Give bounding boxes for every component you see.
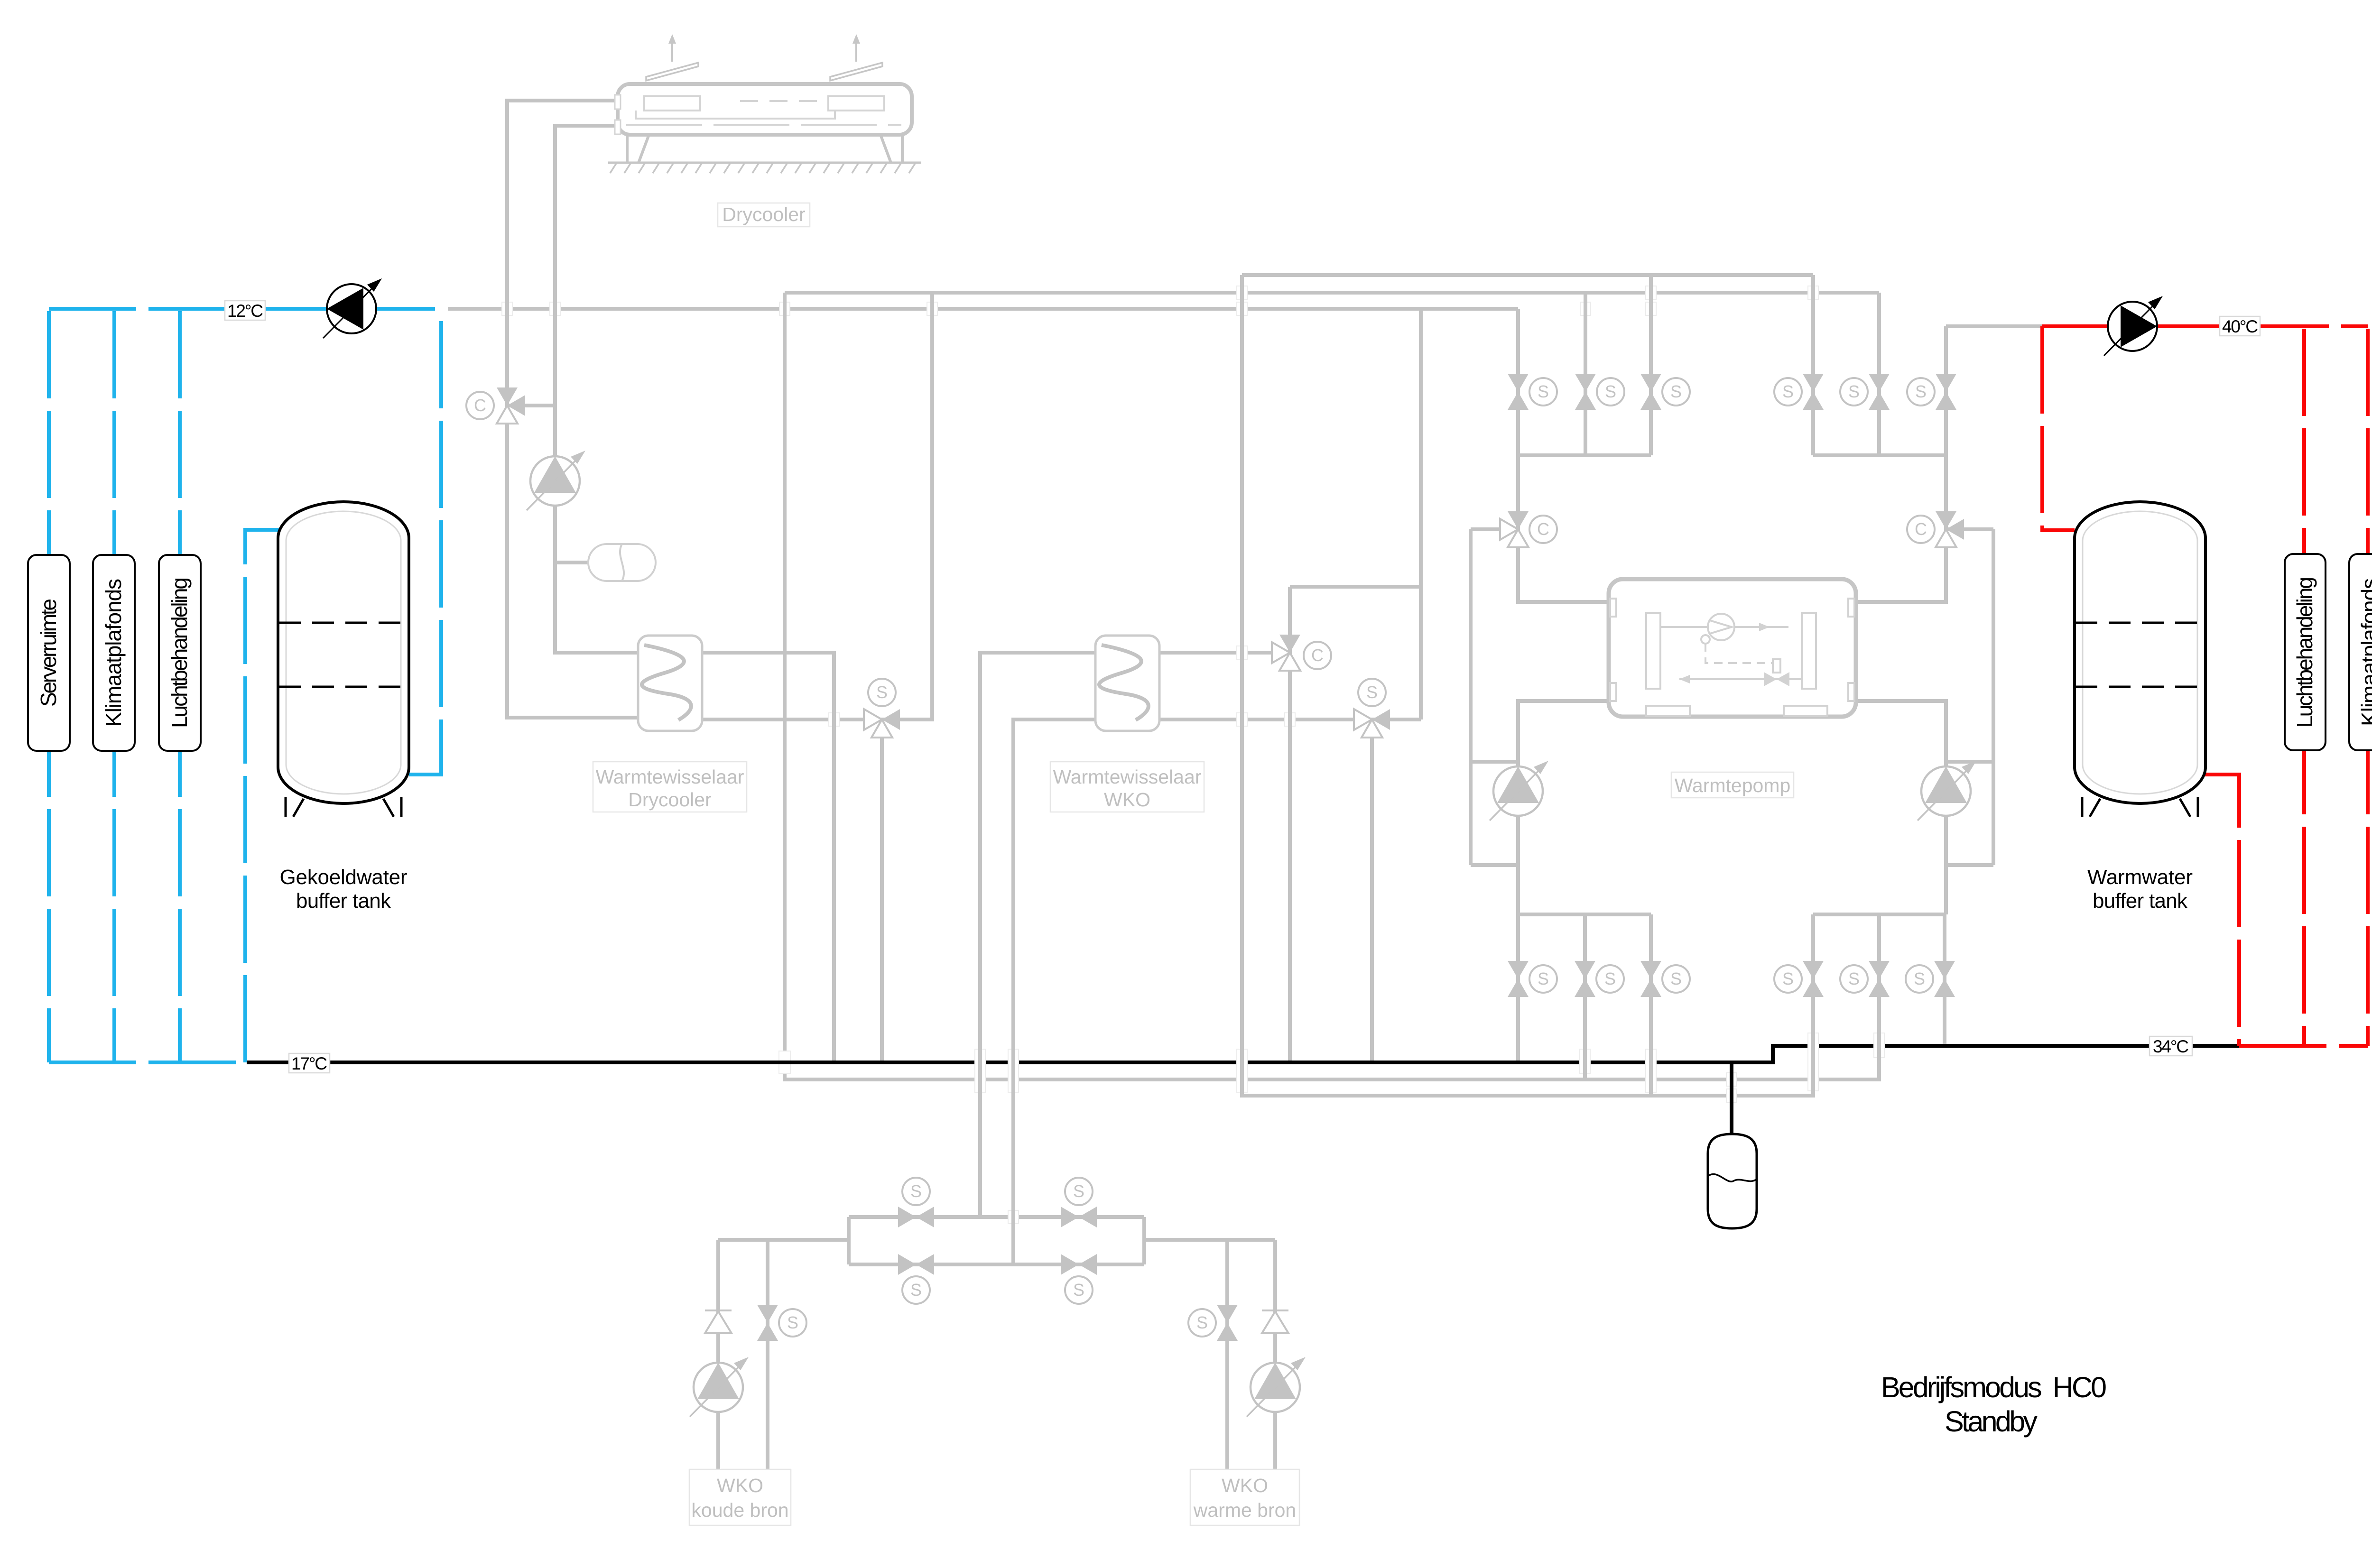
WKO manifold valves with S xyxy=(898,1207,934,1227)
pump heat pump right xyxy=(1918,761,1976,821)
pipe: drycooler supply riser xyxy=(555,126,638,653)
svg-text:Warmtewisselaar: Warmtewisselaar xyxy=(1053,766,1202,788)
svg-text:WKO: WKO xyxy=(1104,789,1150,811)
3-way valve C HX2 xyxy=(1272,635,1300,671)
pipe: HP right outlet with pump column xyxy=(1856,701,1946,914)
pipe: blue 12C supply header xyxy=(49,307,441,311)
pipe: right pump bypass top xyxy=(1946,760,1993,764)
svg-text:Luchtbehandeling: Luchtbehandeling xyxy=(2292,577,2317,728)
label Warmwater buffer tank xyxy=(2087,866,2193,913)
svg-text:Gekoeldwater: Gekoeldwater xyxy=(280,866,408,889)
label Warmtepomp xyxy=(1671,772,1794,798)
pipe: HP evaporator feed column xyxy=(1518,309,1609,602)
drycooler legs and ground xyxy=(627,135,902,163)
label Warmtewisselaar Drycooler xyxy=(593,762,747,812)
pipe: blue bottom collector xyxy=(49,1061,247,1064)
svg-text:buffer tank: buffer tank xyxy=(2093,889,2188,913)
pipe: gray stub to 40C line xyxy=(1946,324,2045,328)
pipe: upper left manifold xyxy=(1518,453,1651,457)
drycooler fan left xyxy=(646,34,698,81)
pipe: WKO manifold right end xyxy=(1142,1217,1146,1264)
expansion vessel black bottom xyxy=(1708,1134,1757,1228)
pipe: HX1 secondary top xyxy=(702,653,834,1062)
load box Luchtbehandeling left xyxy=(159,555,201,751)
pipe: upper loop line A xyxy=(1242,273,1813,277)
pipe: expansion vessel drop black xyxy=(1730,1062,1733,1134)
shutoff valves S upper row xyxy=(1508,374,1529,410)
heat pump box xyxy=(1609,579,1856,717)
svg-text:Warmwater: Warmwater xyxy=(2087,866,2193,889)
pipe: upper valve column 2 xyxy=(1584,293,1587,455)
pipe: WKO warme bron riser 2 xyxy=(1273,1240,1277,1486)
check valve koude bron xyxy=(705,1310,732,1333)
pipe: WKO HX secondary top xyxy=(1159,651,1290,655)
load box Luchtbehandeling right xyxy=(2285,554,2326,750)
shutoff valve S warme bron xyxy=(1217,1305,1238,1341)
pipe: red riser luchtbehandeling xyxy=(2302,329,2306,1046)
node label 17C xyxy=(289,1053,330,1073)
pump blue circuit xyxy=(323,278,382,338)
label Warmtewisselaar WKO xyxy=(1050,762,1204,812)
pipe: HP condenser feed column xyxy=(1856,326,1946,602)
pipe: WKO HX C-valve riser xyxy=(1288,587,1292,1062)
pipe: WKO manifold top rail xyxy=(849,1215,1144,1219)
pipe: HP left outlet with pump column xyxy=(1518,701,1609,1062)
load box Klimaatplafonds left xyxy=(93,555,135,751)
pipe: red riser klimaatplafonds xyxy=(2366,329,2370,1046)
pipe: WKO HX primary cold xyxy=(980,653,1095,1217)
pipe bridge jumps at line crossings xyxy=(502,284,1884,1226)
pipe: upper valve column 5 xyxy=(1877,293,1881,455)
pump red circuit xyxy=(2104,296,2163,356)
load box Klimaatplafonds right xyxy=(2349,554,2372,750)
pipe: WKO koude bron riser 2 xyxy=(766,1240,769,1486)
svg-text:Klimaatplafonds: Klimaatplafonds xyxy=(101,579,126,727)
svg-text:buffer tank: buffer tank xyxy=(296,889,391,913)
pump koude bron xyxy=(690,1357,749,1417)
svg-text:17°C: 17°C xyxy=(291,1054,327,1073)
heat exchanger HX1 drycooler xyxy=(638,636,702,731)
pipe: 17C/34C return main black xyxy=(247,1046,2239,1062)
label WKO koude bron xyxy=(689,1469,791,1525)
pipe: WKO HX S-valve stub xyxy=(1370,719,1374,1062)
pipe: blue riser klimaatplafonds xyxy=(112,311,116,1062)
3-way valve C drycooler bypass xyxy=(497,387,525,424)
pipe: gray 12C main header xyxy=(448,307,1518,311)
shutoff valves S lower row xyxy=(1508,961,1529,997)
svg-text:Serverruimte: Serverruimte xyxy=(36,599,61,707)
pipe: WKO HX secondary bottom xyxy=(1159,718,1421,721)
pipe: WKO left header xyxy=(718,1238,849,1242)
check valve warme bron xyxy=(1262,1310,1288,1333)
load box Serverruimte xyxy=(28,555,70,751)
pipe: blue riser serverruimte xyxy=(47,311,51,1062)
pipe: left pump bypass top xyxy=(1471,760,1518,764)
label Drycooler xyxy=(718,203,810,227)
svg-text:warme bron: warme bron xyxy=(1193,1499,1296,1521)
pump warme bron xyxy=(1247,1357,1306,1417)
svg-text:Bedrijfsmodus HC0: Bedrijfsmodus HC0 xyxy=(1881,1371,2107,1403)
pipe: C-valve right arm link xyxy=(1946,527,1993,531)
svg-text:Luchtbehandeling: Luchtbehandeling xyxy=(167,577,192,728)
pipe: WKO right header xyxy=(1144,1238,1275,1242)
pipe: WKO manifold left end xyxy=(847,1217,851,1264)
pipe: blue riser luchtbehandeling xyxy=(178,311,182,1062)
expansion vessel drycooler loop xyxy=(588,544,656,581)
pipe: blue return to tank xyxy=(245,530,279,1062)
pipe: return collector line 2270 xyxy=(785,293,1879,1079)
pipe: right pump bypass bottom xyxy=(1946,863,1993,867)
pipe: upper valve column 4 xyxy=(1811,275,1815,455)
label Gekoeldwater buffer tank xyxy=(280,866,408,913)
pipe: lower valve column 4099 xyxy=(1943,914,1946,1046)
pipe: WKO koude bron riser 1 xyxy=(716,1240,720,1486)
pipe: expansion vessel stub drycooler xyxy=(555,561,588,564)
pipe: HX1 S-valve stub down xyxy=(880,719,884,1062)
svg-text:34°C: 34°C xyxy=(2153,1037,2189,1056)
pipe: C-valve right downcomer xyxy=(1992,529,1995,865)
heat exchanger HX2 WKO xyxy=(1095,636,1159,731)
pipe: WKO manifold bottom rail xyxy=(849,1263,1144,1266)
pipe: HX1 secondary bottom to riser xyxy=(702,293,932,719)
label Bedrijfsmodus HC0 Standby xyxy=(1881,1371,2107,1438)
drycooler body xyxy=(615,84,912,135)
pipe: red tank return xyxy=(2205,775,2239,1046)
pipe: drycooler return riser xyxy=(507,101,638,718)
pump drycooler loop xyxy=(527,451,585,510)
pipe: WKO warme bron riser 1 xyxy=(1225,1240,1229,1486)
pipe: drycooler bypass branch xyxy=(507,404,555,407)
3-way valve S HX2 xyxy=(1354,709,1390,738)
node label 40C xyxy=(2220,316,2260,336)
pipe: upper loop line B xyxy=(785,291,1879,295)
svg-text:Warmtewisselaar: Warmtewisselaar xyxy=(596,766,744,788)
pipe: red bottom collector xyxy=(2239,1044,2368,1048)
pipe: lower valve column 3480 xyxy=(1649,914,1653,1096)
pipe: lower valve column 3341 xyxy=(1583,914,1587,1079)
3-way valve C heat pump right xyxy=(1936,511,1964,547)
pipe: WKO HX primary warm xyxy=(1013,719,1095,1264)
svg-text:40°C: 40°C xyxy=(2222,317,2258,336)
pipe: upper right manifold xyxy=(1813,453,1946,457)
pipe: red 40C supply header xyxy=(2042,324,2368,328)
pipe bridge on riser 1654 under black main xyxy=(779,1051,790,1074)
svg-text:WKO: WKO xyxy=(1222,1475,1268,1496)
3-way valve C heat pump left xyxy=(1500,511,1529,547)
pipe: WKO riser to header xyxy=(1419,309,1423,719)
pipe: red tank feed elbow xyxy=(2042,326,2075,530)
pipe: blue tank outlet riser xyxy=(409,309,441,775)
pipe: C-valve left downcomer xyxy=(1469,529,1473,865)
shutoff valve S koude bron xyxy=(757,1305,778,1341)
drycooler fan right xyxy=(830,34,882,81)
3-way valve S HX1 xyxy=(864,709,900,738)
pump heat pump left xyxy=(1490,761,1548,821)
pipe: left pump bypass bottom xyxy=(1471,863,1518,867)
pipe: return collector line 2306 xyxy=(1242,275,1813,1096)
pipe: upper valve column 3 xyxy=(1649,275,1653,455)
pipe: C-valve left arm link xyxy=(1471,527,1518,531)
svg-text:12°C: 12°C xyxy=(227,301,263,321)
buffer tank cold Gekoeldwater xyxy=(278,502,409,817)
svg-text:Standby: Standby xyxy=(1945,1405,2038,1438)
pipe: WKO HX C-valve top link xyxy=(1290,585,1421,589)
svg-text:WKO: WKO xyxy=(717,1475,763,1496)
svg-text:Klimaatplafonds: Klimaatplafonds xyxy=(2357,578,2372,726)
svg-text:koude bron: koude bron xyxy=(691,1499,788,1521)
svg-text:Drycooler: Drycooler xyxy=(628,789,711,811)
node label 12C xyxy=(225,301,265,321)
buffer tank warm Warmwater xyxy=(2075,502,2205,817)
node label 34C xyxy=(2150,1036,2192,1056)
label WKO warme bron xyxy=(1190,1469,1299,1525)
svg-text:Warmtepomp: Warmtepomp xyxy=(1675,775,1791,796)
svg-text:Drycooler: Drycooler xyxy=(722,203,805,225)
pipe: lower left manifold xyxy=(1518,913,1651,916)
pipe: lower right manifold xyxy=(1813,913,1946,916)
